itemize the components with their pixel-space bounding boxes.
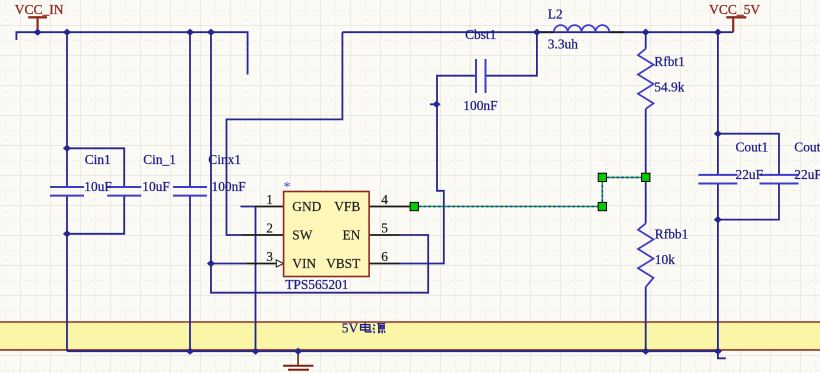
svg-text:4: 4 — [381, 192, 388, 207]
svg-text:Cout1: Cout1 — [736, 139, 769, 154]
svg-text:Cin1: Cin1 — [85, 152, 111, 167]
svg-text:GND: GND — [292, 199, 321, 214]
svg-text:TPS565201: TPS565201 — [285, 277, 348, 292]
svg-text:5: 5 — [381, 221, 388, 236]
svg-text:100nF: 100nF — [463, 98, 497, 113]
svg-text:2: 2 — [266, 221, 273, 236]
svg-text:*: * — [284, 180, 291, 195]
svg-text:VCC_IN: VCC_IN — [15, 2, 64, 17]
svg-text:Cout: Cout — [794, 139, 820, 154]
svg-text:Rfbb1: Rfbb1 — [655, 227, 688, 242]
svg-text:3: 3 — [266, 249, 273, 264]
svg-text:SW: SW — [292, 227, 312, 242]
svg-text:22uF: 22uF — [736, 167, 764, 182]
svg-text:L2: L2 — [548, 6, 563, 21]
svg-text:3.3uh: 3.3uh — [548, 36, 578, 51]
svg-text:6: 6 — [381, 249, 388, 264]
svg-text:Cin_1: Cin_1 — [143, 152, 176, 167]
svg-text:10uF: 10uF — [84, 179, 112, 194]
svg-text:Cbst1: Cbst1 — [465, 27, 496, 42]
svg-text:5V: 5V — [342, 321, 359, 336]
svg-text:VCC_5V: VCC_5V — [709, 2, 760, 17]
svg-text:VBST: VBST — [326, 256, 360, 271]
svg-text:10uF: 10uF — [142, 179, 170, 194]
svg-text:Cinx1: Cinx1 — [208, 152, 241, 167]
svg-text:EN: EN — [342, 227, 360, 242]
svg-text:VIN: VIN — [292, 256, 316, 271]
svg-text:100nF: 100nF — [212, 179, 246, 194]
svg-text:1: 1 — [266, 192, 273, 207]
svg-text:10k: 10k — [655, 252, 675, 267]
svg-text:Rfbt1: Rfbt1 — [654, 54, 685, 69]
svg-text:22uF: 22uF — [794, 167, 820, 182]
svg-text:54.9k: 54.9k — [654, 80, 684, 95]
svg-text:VFB: VFB — [334, 199, 360, 214]
